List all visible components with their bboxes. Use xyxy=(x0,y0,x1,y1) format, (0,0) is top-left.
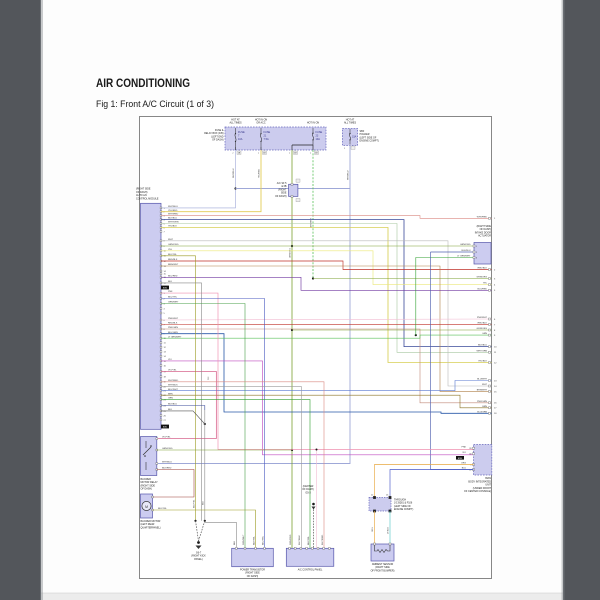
wire BLK/YEL panel ground dashed xyxy=(313,510,315,549)
svg-text:WHT/RED: WHT/RED xyxy=(322,534,324,545)
wire GRN/WHT fuse23 branch dashed xyxy=(312,150,314,279)
actuator pin 2 xyxy=(473,251,475,253)
svg-text:A/C CONTROL PANEL: A/C CONTROL PANEL xyxy=(298,569,323,572)
A/C SF tag bottom xyxy=(296,199,300,202)
right edge pin 4 xyxy=(489,284,491,286)
A/C SF tag top xyxy=(296,179,300,182)
svg-text:ENGINE COMPT): ENGINE COMPT) xyxy=(360,140,379,143)
wire PNK/GRN module to right pin16 xyxy=(161,329,492,403)
wire PNK branch to AC panel xyxy=(316,450,318,549)
svg-text:PNK: PNK xyxy=(462,447,467,449)
wire BRN/WHT module to right pin15 xyxy=(161,266,492,391)
right edge pin 8 xyxy=(489,329,491,331)
module pin 12 xyxy=(160,346,162,348)
wire fuse23 to branch xyxy=(292,144,313,146)
svg-text:BRN: BRN xyxy=(482,406,487,408)
ac panel pin 3 xyxy=(300,547,302,549)
junction BLK xyxy=(204,423,206,425)
module pin 2 xyxy=(160,211,162,213)
wire ground lead dashed b xyxy=(199,521,205,541)
svg-text:GRN/WHT: GRN/WHT xyxy=(243,534,245,545)
svg-text:GRN: GRN xyxy=(482,333,487,335)
wire BLK/YEL blower motor to power transistor xyxy=(153,510,256,548)
A/C SF bottom pin xyxy=(291,195,293,197)
svg-text:LT BLU: LT BLU xyxy=(388,527,390,534)
module pin 13 xyxy=(160,351,162,353)
svg-text:OF DASH): OF DASH) xyxy=(275,195,287,198)
module pin 6 xyxy=(160,227,162,229)
wire BLK/BLU module pin24 down xyxy=(161,406,205,411)
svg-text:OF CENTER CONSOLE): OF CENTER CONSOLE) xyxy=(464,490,491,493)
JC pin at 390,497.5 xyxy=(389,496,392,499)
svg-text:BLK/YEL: BLK/YEL xyxy=(158,508,168,510)
svg-text:GRN/ORG: GRN/ORG xyxy=(460,244,471,246)
module pin 17 xyxy=(160,371,162,373)
right edge pin 14 xyxy=(489,385,491,387)
ground G5-3 arrow xyxy=(312,507,316,510)
module connector id tag 1 xyxy=(161,286,169,290)
module pin 3 xyxy=(160,303,162,305)
SBF holder box xyxy=(342,128,357,145)
module pin 1 xyxy=(160,207,162,209)
module pin 16 xyxy=(160,365,162,367)
junction connector JC box xyxy=(369,498,391,512)
wire YEL module to right pin4 xyxy=(161,251,492,285)
module pin 11 xyxy=(160,342,162,344)
wire ORG JC to ambient sensor xyxy=(374,511,376,544)
auto A/C control module xyxy=(141,203,162,429)
junction PNK branch xyxy=(316,449,318,451)
module pin 9 xyxy=(160,333,162,335)
right edge pin 1 xyxy=(489,217,491,219)
svg-text:OR ACC: OR ACC xyxy=(256,122,265,125)
module pin 12 xyxy=(160,260,162,262)
wire BLK vertical to power transistor xyxy=(204,410,206,521)
wire BLK/RED relay to blower motor xyxy=(153,470,195,498)
wire VIO/YEL module to blower relay xyxy=(157,371,217,438)
wire ORG body unit to JC xyxy=(375,465,474,498)
svg-text:WHT: WHT xyxy=(482,384,488,386)
right edge pin 18 xyxy=(489,412,491,414)
module pin 5 xyxy=(160,223,162,225)
wire WHT/BLU fuse7 to module pin1 xyxy=(161,150,236,208)
wire RED/BLK module to right pin7 xyxy=(161,323,492,325)
svg-text:BLK: BLK xyxy=(234,540,236,545)
wire fuse23 branch drop b xyxy=(312,145,314,150)
svg-text:PANEL): PANEL) xyxy=(194,558,203,561)
module pin 11 xyxy=(160,255,162,257)
power transistor pin BLK/YEL xyxy=(255,547,257,549)
wire BLK/BLU actuator pin2 branch xyxy=(431,251,475,253)
module pin 4 xyxy=(160,219,162,221)
fuse box pin tag 4 xyxy=(315,151,319,154)
svg-text:ENGINE COMPT): ENGINE COMPT) xyxy=(394,508,413,511)
power transistor box xyxy=(232,548,274,566)
module pin 26 xyxy=(160,415,162,417)
body unit id tag xyxy=(456,456,464,460)
svg-text:ACTUATOR: ACTUATOR xyxy=(478,235,491,238)
wire GRN/ORG relay to main vertical xyxy=(157,449,292,451)
wire BLU/WHT module to right pin13 xyxy=(161,381,492,391)
svg-text:PNK/WHT: PNK/WHT xyxy=(477,317,488,319)
module pin 8 xyxy=(160,328,162,330)
right page soft edge xyxy=(562,0,565,600)
junction WHT/BLU xyxy=(234,187,236,189)
blower relay pin 4 xyxy=(156,469,158,471)
right edge pin 6 xyxy=(489,318,491,320)
fuse SBF xyxy=(349,129,351,134)
svg-text:ALL TIMES: ALL TIMES xyxy=(344,122,356,125)
svg-text:CONTROL MODULE: CONTROL MODULE xyxy=(136,197,159,200)
wire WHT/BLK module to AC panel xyxy=(161,386,301,548)
fuse box pin tag 1 xyxy=(237,151,241,154)
module pin 14 xyxy=(160,270,162,272)
wire YEL/RED fuse21 to module pin2 xyxy=(161,150,261,212)
svg-text:BLU/RED: BLU/RED xyxy=(478,288,488,290)
module pin 1 xyxy=(160,292,162,294)
svg-text:B281: B281 xyxy=(163,427,167,429)
right edge pin 5 xyxy=(489,289,491,291)
svg-text:WHT/BLU: WHT/BLU xyxy=(348,170,350,180)
module pin 10 xyxy=(160,250,162,252)
blower motor pin 1 xyxy=(152,496,154,498)
svg-text:GRN/ORG: GRN/ORG xyxy=(477,277,488,279)
wire LT BLU JC to ambient sensor xyxy=(389,511,391,544)
svg-text:VIO: VIO xyxy=(462,452,466,454)
module pin 2 xyxy=(160,298,162,300)
module pin 23 xyxy=(160,399,162,401)
fuse & relay box F/B xyxy=(225,127,326,150)
ac panel pin 8 xyxy=(329,547,331,549)
wire LT GRN/WHT module to right pin9 xyxy=(161,335,492,338)
svg-text:BLK: BLK xyxy=(203,500,205,505)
svg-text:GRN/WHT: GRN/WHT xyxy=(311,217,313,228)
page bottom edge xyxy=(41,593,563,600)
right edge pin 10 xyxy=(489,346,491,348)
module pin 22 xyxy=(160,394,162,396)
fuse box pin tag 2 xyxy=(263,151,267,154)
module pin 15 xyxy=(160,273,162,275)
module pin 8 xyxy=(160,240,162,242)
right edge pin 11 xyxy=(489,351,491,353)
svg-text:WHT/BLU: WHT/BLU xyxy=(233,168,235,178)
right edge pin 16 xyxy=(489,402,491,404)
left gray sidebar xyxy=(0,0,41,600)
svg-text:B280: B280 xyxy=(458,458,462,460)
module pin 16 xyxy=(160,276,162,278)
diagram frame xyxy=(140,117,492,579)
ambient sensor resistor xyxy=(375,545,391,553)
wire fuse21 drop inside xyxy=(260,147,262,150)
svg-text:B280: B280 xyxy=(163,288,167,290)
module pin 7 xyxy=(160,231,162,233)
module pin 18 xyxy=(160,376,162,378)
svg-text:QUARTERPANEL): QUARTERPANEL) xyxy=(141,526,161,529)
module pin 10 xyxy=(160,337,162,339)
svg-text:LT GRN/WHT: LT GRN/WHT xyxy=(457,256,471,258)
svg-text:PNK/GRN: PNK/GRN xyxy=(477,401,487,403)
ground G6-7 dot xyxy=(197,541,200,544)
right gray sidebar xyxy=(563,0,600,600)
svg-text:ALL TIMES: ALL TIMES xyxy=(229,122,241,125)
wire GRN/ORG right pin8 row xyxy=(292,329,492,331)
body integrated unit box xyxy=(474,445,492,476)
wire BLU/YEL module to power transistor pin4 xyxy=(161,299,265,549)
wire BLU/RED module to right pin5 xyxy=(161,277,492,290)
right edge pin 2 xyxy=(489,269,491,271)
A/C SF top pin xyxy=(291,183,293,185)
ambient sensor box xyxy=(371,544,394,561)
body unit pin 12 xyxy=(473,469,475,471)
body unit pin 30 xyxy=(473,453,475,455)
wire PNK module to body unit xyxy=(161,293,474,449)
right edge pin 7 xyxy=(489,323,491,325)
junction GRN actuator xyxy=(415,334,417,336)
svg-text:OF DASH): OF DASH) xyxy=(247,575,259,578)
left page soft edge xyxy=(40,0,43,600)
body unit pin 1 xyxy=(473,464,475,466)
svg-text:YEL/BLK: YEL/BLK xyxy=(478,361,487,363)
JC pin at 390,511 xyxy=(389,510,392,513)
module pin 3 xyxy=(160,215,162,217)
wire YEL/BLK module to right pin12 xyxy=(161,228,492,363)
wire GRN/ORG module to actuator pin1 xyxy=(161,245,474,247)
svg-text:RED/BLK: RED/BLK xyxy=(478,322,488,324)
junction ground a xyxy=(194,520,196,522)
blower motor box xyxy=(141,494,153,518)
fuse box pin tag 3 xyxy=(294,151,298,154)
svg-text:BRN/WHT: BRN/WHT xyxy=(477,389,488,391)
junction GRN/ORG pin8 row xyxy=(291,329,293,331)
svg-text:G5-3: G5-3 xyxy=(305,491,311,494)
wire BLK module pin17 to ground G6-7 xyxy=(161,283,202,521)
ac panel pin 5 xyxy=(311,547,313,549)
blower motor pin 2 xyxy=(152,509,154,511)
svg-text:GRN/ORG: GRN/ORG xyxy=(290,248,292,258)
fuse F7 xyxy=(235,128,237,134)
wire BLK module pin25 diagonal xyxy=(161,411,205,424)
ac panel pin 4 xyxy=(306,547,308,549)
svg-text:AIR CONDITIONING: AIR CONDITIONING xyxy=(96,76,190,90)
wire fuse23 branch drop a xyxy=(291,145,293,150)
svg-text:BLU/YEL: BLU/YEL xyxy=(262,535,264,545)
module pin 15 xyxy=(160,360,162,362)
svg-text:M: M xyxy=(145,505,148,509)
wire fuse7 drop inside xyxy=(235,147,237,150)
power transistor pin BLK xyxy=(235,547,237,549)
wire GRN module to AC panel xyxy=(161,400,310,549)
wire GRN/WHT module to power transistor pin2 xyxy=(161,304,245,549)
wire GRN actuator pin3 branch xyxy=(416,258,474,336)
wire BLU/GRN module to right pin18 xyxy=(161,334,492,414)
module pin 20 xyxy=(160,386,162,388)
power transistor pin BLU/YEL xyxy=(264,547,266,549)
svg-text:BLK/YEL: BLK/YEL xyxy=(253,535,255,545)
svg-text:BLK/BLU: BLK/BLU xyxy=(478,345,487,347)
junction GRN/WHT pin3 row xyxy=(312,277,314,279)
fuse F21 xyxy=(260,128,262,134)
module pin 5 xyxy=(160,312,162,314)
ac panel pin 6 xyxy=(317,547,319,549)
svg-text:ORG: ORG xyxy=(372,527,374,532)
right edge pin 13 xyxy=(489,380,491,382)
svg-text:BLU/GRN: BLU/GRN xyxy=(477,411,487,413)
wire WHT/RED module to right pin1 xyxy=(161,216,492,219)
svg-text:15A: 15A xyxy=(352,136,357,139)
right edge pin 17 xyxy=(489,407,491,409)
junction ground b xyxy=(204,520,206,522)
svg-text:10A: 10A xyxy=(316,138,321,141)
wire RED/BLK module to right pin2 xyxy=(161,261,492,270)
svg-text:GRN/ORG: GRN/ORG xyxy=(290,534,292,545)
ac panel pin 2 xyxy=(294,547,296,549)
module pin 9 xyxy=(160,245,162,247)
svg-text:YEL/RED: YEL/RED xyxy=(259,169,261,178)
svg-text:WHT/BLU: WHT/BLU xyxy=(162,462,172,464)
svg-text:GRN/ORG: GRN/ORG xyxy=(477,328,488,330)
svg-text:OF DASH): OF DASH) xyxy=(212,139,224,142)
power transistor pin GRN/WHT xyxy=(244,547,246,549)
module pin 6 xyxy=(160,319,162,321)
svg-text:RED/BLK: RED/BLK xyxy=(478,268,488,270)
junction GRN/ORG actuator row xyxy=(291,245,293,247)
svg-text:BLU/WHT: BLU/WHT xyxy=(477,379,488,381)
module pin 7 xyxy=(160,324,162,326)
body unit pin 28 xyxy=(473,447,475,449)
actuator pin 3 xyxy=(473,257,475,259)
A/C SF connector box xyxy=(289,184,298,196)
ambient sensor pin 2 xyxy=(389,543,391,545)
module pin 19 xyxy=(160,381,162,383)
actuator pin 1 xyxy=(473,245,475,247)
fuse F23 xyxy=(312,128,314,133)
sbf pin tag xyxy=(351,146,355,149)
blower relay internals xyxy=(145,441,147,448)
wire WHT/BLU SBF to blower relay xyxy=(157,189,350,464)
module pin 14 xyxy=(160,355,162,357)
module pin 25 xyxy=(160,410,162,412)
wire GRN/ORG right pin3 row xyxy=(313,278,492,280)
svg-text:OF FRONT BUMPER): OF FRONT BUMPER) xyxy=(371,569,395,572)
intake door actuator box xyxy=(474,243,491,265)
wire BLU body unit to JC xyxy=(390,470,474,498)
wire BLU vertical to body unit xyxy=(431,252,474,470)
wire PNK/WHT module to right pin6 xyxy=(161,319,492,320)
wire BRN module to right pin17 xyxy=(161,395,492,408)
svg-text:VIO/YEL: VIO/YEL xyxy=(162,437,171,439)
JC pin at 374.5,511 xyxy=(373,510,376,513)
right edge pin 3 xyxy=(489,278,491,280)
ac panel pin 7 xyxy=(323,547,325,549)
right edge pin 15 xyxy=(489,390,491,392)
ground G5-3 dot xyxy=(312,503,315,506)
svg-text:OF DASH): OF DASH) xyxy=(141,488,153,491)
ground G6-7 symbol xyxy=(196,546,202,550)
JC pin at 374.5,497.5 xyxy=(373,496,376,499)
wire ground lead dashed a xyxy=(196,521,199,541)
svg-text:7.5A: 7.5A xyxy=(264,138,269,141)
wire WHT/GRN module to right pin11 xyxy=(161,224,492,353)
svg-text:BLK/BLU: BLK/BLU xyxy=(462,250,471,252)
wire GRN/ORG fuse23 main vertical xyxy=(291,150,293,548)
module pin 13 xyxy=(160,265,162,267)
right edge pin 9 xyxy=(489,334,491,336)
svg-text:WHT/RED: WHT/RED xyxy=(477,216,488,218)
ac panel pin 1 xyxy=(289,547,291,549)
svg-text:10A: 10A xyxy=(238,138,243,141)
blower relay pin 3 xyxy=(156,463,158,465)
module pin 24 xyxy=(160,405,162,407)
right edge pin 12 xyxy=(489,362,491,364)
wire VIO module to body unit xyxy=(161,361,474,455)
blower relay pin 1 xyxy=(156,438,158,440)
blower relay pin 2 xyxy=(156,449,158,451)
ambient sensor pin 1 xyxy=(374,543,376,545)
wire WHT module to right pin14 xyxy=(161,241,492,386)
svg-text:WHT/BLK: WHT/BLK xyxy=(299,535,301,545)
blower motor symbol xyxy=(142,501,151,510)
svg-text:WHT/GRN: WHT/GRN xyxy=(477,350,488,352)
wire BLK/BLU module to right pin10 xyxy=(161,220,492,347)
A/C control panel box xyxy=(286,548,334,566)
wire WHT/RED module to AC panel xyxy=(161,382,324,549)
module pin 21 xyxy=(160,390,162,392)
wire BLK to power transistor pin1 xyxy=(205,521,237,549)
wire BLK/YEL module to ground G6-7 xyxy=(161,256,196,521)
module pin 4 xyxy=(160,308,162,310)
module pin 27 xyxy=(160,419,162,421)
module connector id tag 2 xyxy=(161,425,169,429)
svg-text:Fig 1: Front A/C Circuit (1 of: Fig 1: Front A/C Circuit (1 of 3) xyxy=(96,99,214,110)
svg-text:HOT IN ON: HOT IN ON xyxy=(307,122,320,125)
svg-text:BLK/YEL: BLK/YEL xyxy=(193,499,195,508)
blower motor relay xyxy=(141,437,157,476)
wire WHT/BLU SBF holder feed xyxy=(236,145,351,189)
svg-text:BLK/YEL: BLK/YEL xyxy=(308,535,310,545)
module pin 17 xyxy=(160,282,162,284)
junction GRN/ORG relay row xyxy=(291,449,293,451)
